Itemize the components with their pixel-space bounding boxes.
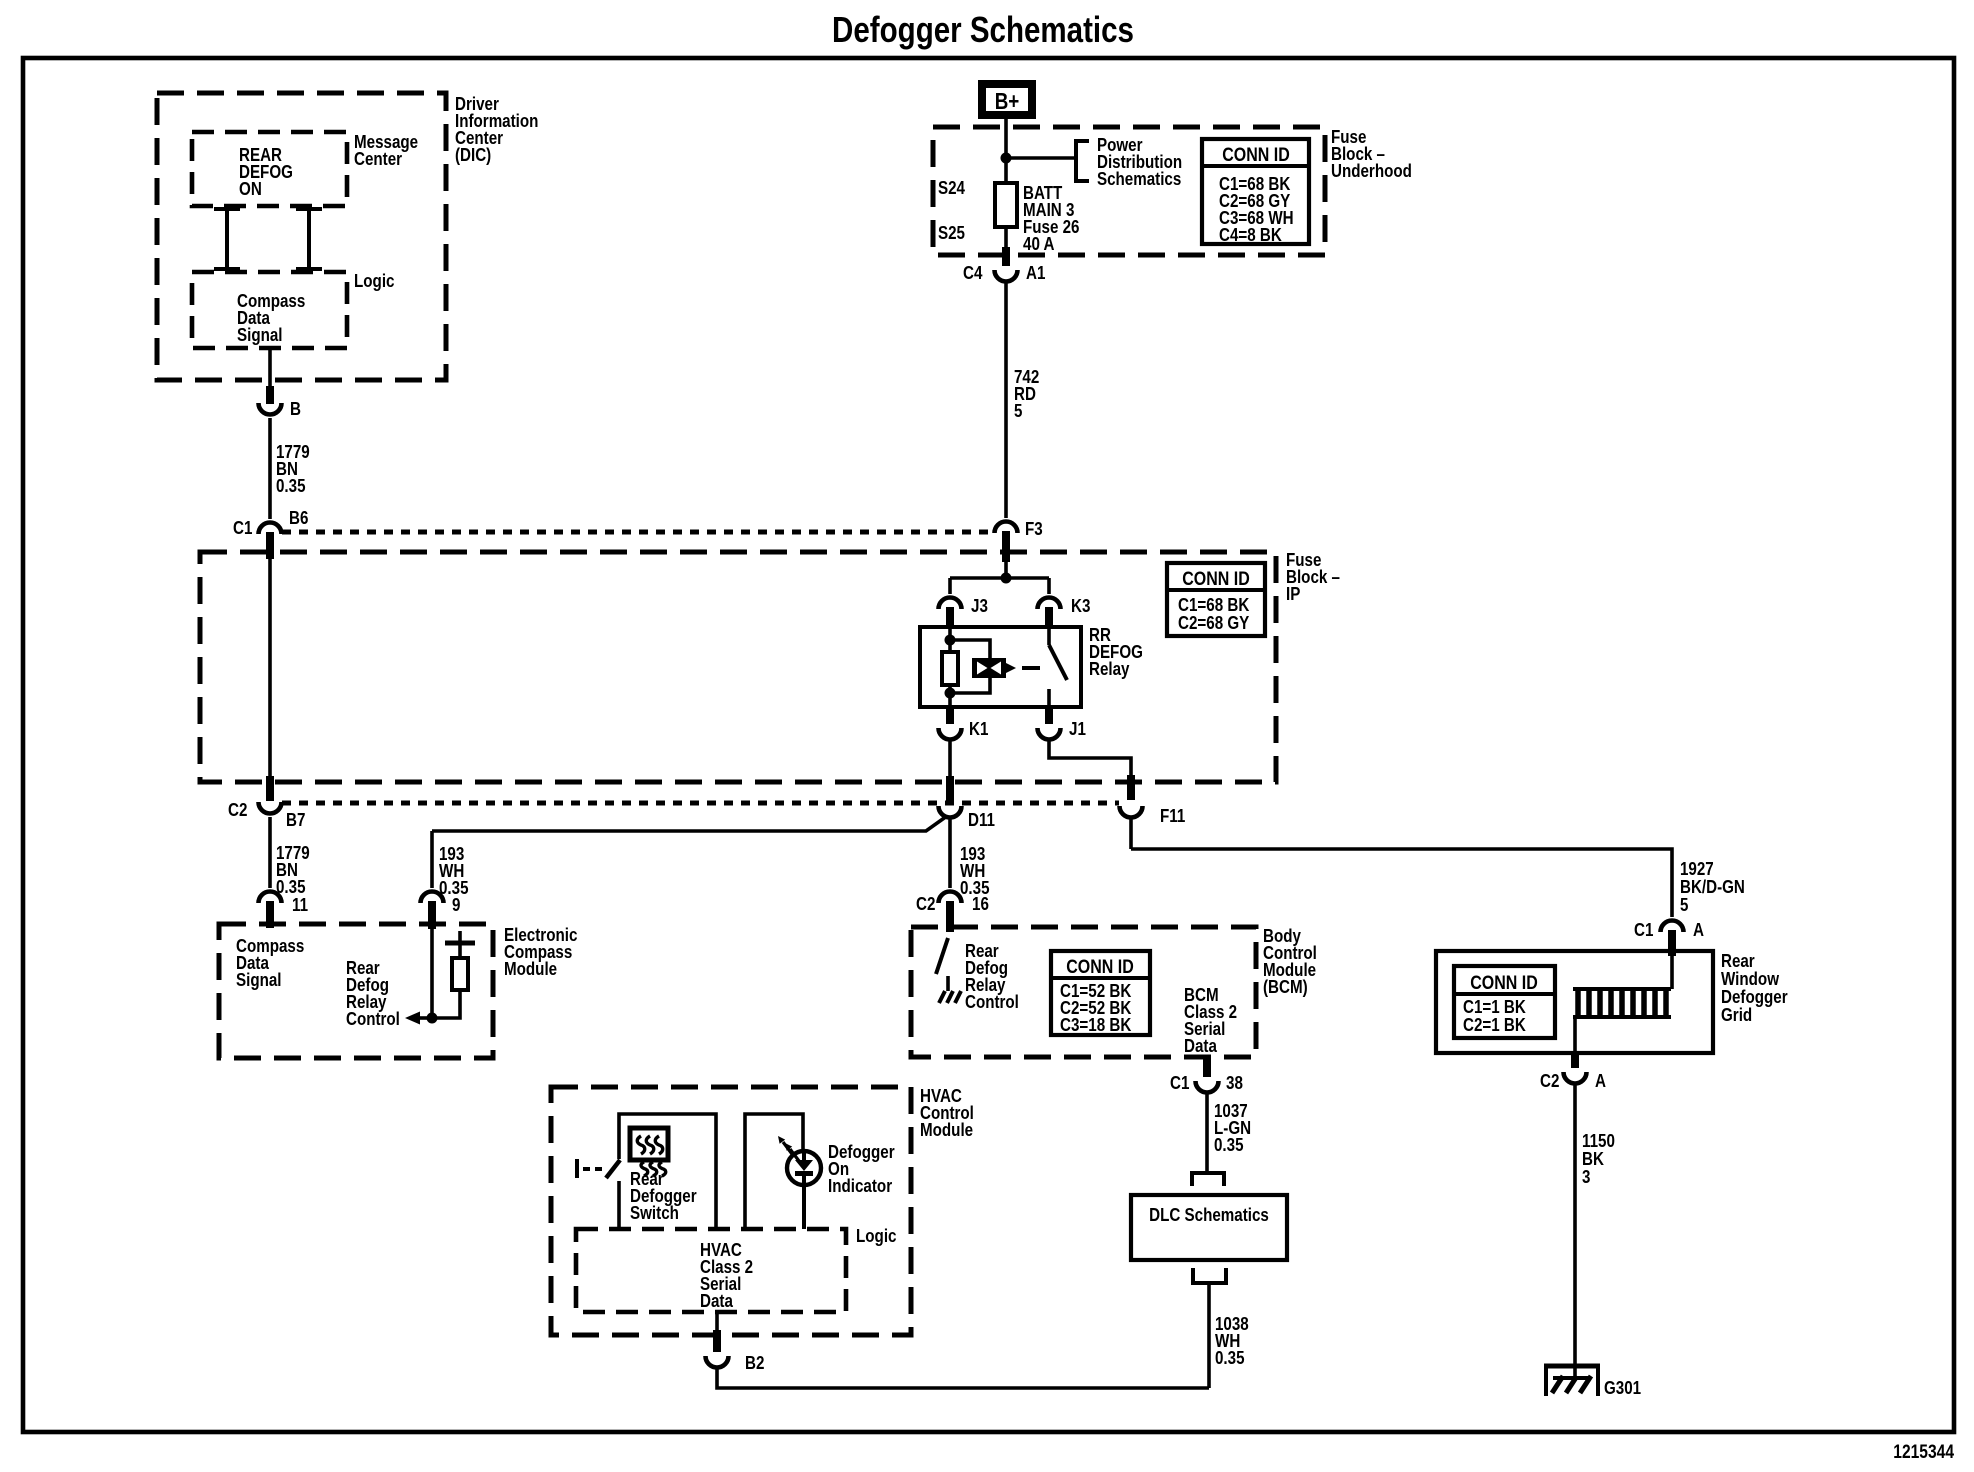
svg-text:CONN ID: CONN ID (1222, 144, 1290, 166)
svg-text:0.35: 0.35 (1215, 1347, 1245, 1368)
svg-text:Signal: Signal (237, 324, 283, 345)
svg-text:3: 3 (1582, 1166, 1590, 1187)
svg-text:Data: Data (700, 1290, 733, 1311)
svg-text:(BCM): (BCM) (1263, 976, 1308, 997)
svg-text:C1: C1 (233, 517, 252, 538)
svg-text:Module: Module (920, 1119, 973, 1140)
svg-text:C4=8 BK: C4=8 BK (1219, 224, 1282, 245)
svg-text:Center: Center (354, 148, 402, 169)
svg-text:Underhood: Underhood (1331, 160, 1412, 181)
svg-text:ON: ON (239, 178, 262, 199)
svg-text:Module: Module (504, 958, 557, 979)
svg-text:Data: Data (1184, 1035, 1217, 1056)
svg-text:Schematics: Schematics (1097, 168, 1181, 189)
svg-text:9: 9 (452, 894, 460, 915)
svg-text:B7: B7 (286, 809, 305, 830)
svg-text:Grid: Grid (1721, 1004, 1752, 1025)
svg-text:D11: D11 (968, 809, 995, 830)
svg-text:Defogger Schematics: Defogger Schematics (832, 9, 1134, 50)
svg-text:Switch: Switch (630, 1202, 679, 1223)
svg-text:16: 16 (972, 893, 989, 914)
svg-text:J1: J1 (1069, 718, 1086, 739)
svg-text:C2: C2 (916, 893, 935, 914)
svg-text:F3: F3 (1025, 518, 1043, 539)
svg-text:CONN ID: CONN ID (1470, 972, 1538, 994)
svg-text:C1: C1 (1170, 1072, 1189, 1093)
svg-text:0.35: 0.35 (276, 475, 306, 496)
svg-text:Relay: Relay (1089, 658, 1130, 679)
svg-text:C2: C2 (228, 799, 247, 820)
svg-text:C2=1 BK: C2=1 BK (1463, 1014, 1526, 1035)
svg-text:0.35: 0.35 (1214, 1134, 1244, 1155)
svg-text:CONN ID: CONN ID (1182, 568, 1250, 590)
svg-text:Control: Control (965, 991, 1019, 1012)
svg-text:Signal: Signal (236, 969, 282, 990)
svg-text:A1: A1 (1026, 262, 1045, 283)
svg-text:G301: G301 (1604, 1377, 1641, 1398)
svg-text:40 A: 40 A (1023, 233, 1055, 254)
svg-text:11: 11 (292, 894, 308, 915)
svg-text:K1: K1 (969, 718, 988, 739)
svg-text:S25: S25 (938, 222, 965, 243)
svg-text:5: 5 (1680, 894, 1688, 915)
svg-text:(DIC): (DIC) (455, 144, 491, 165)
svg-text:B6: B6 (289, 507, 308, 528)
svg-text:B2: B2 (745, 1352, 764, 1373)
svg-text:C2: C2 (1540, 1070, 1559, 1091)
svg-text:Logic: Logic (354, 270, 395, 291)
svg-text:A: A (1595, 1070, 1606, 1091)
svg-text:S24: S24 (938, 177, 966, 198)
svg-text:J3: J3 (971, 595, 988, 616)
svg-text:Control: Control (346, 1008, 400, 1029)
svg-text:1215344: 1215344 (1893, 1442, 1954, 1463)
svg-text:C3=18 BK: C3=18 BK (1060, 1014, 1132, 1035)
svg-text:A: A (1693, 919, 1704, 940)
svg-text:DLC Schematics: DLC Schematics (1149, 1204, 1269, 1225)
svg-text:F11: F11 (1160, 805, 1185, 826)
svg-text:5: 5 (1014, 400, 1022, 421)
svg-text:B+: B+ (995, 88, 1020, 114)
svg-text:IP: IP (1286, 583, 1300, 604)
svg-text:38: 38 (1226, 1072, 1243, 1093)
svg-text:0.35: 0.35 (276, 876, 306, 897)
svg-text:Logic: Logic (856, 1225, 897, 1246)
svg-text:BK/D-GN: BK/D-GN (1680, 876, 1745, 897)
svg-text:C2=68 GY: C2=68 GY (1178, 612, 1250, 633)
svg-text:B: B (290, 398, 301, 419)
svg-text:C1: C1 (1634, 919, 1653, 940)
svg-text:CONN ID: CONN ID (1066, 956, 1134, 978)
svg-text:Indicator: Indicator (828, 1175, 892, 1196)
svg-text:K3: K3 (1071, 595, 1090, 616)
svg-text:C4: C4 (963, 262, 983, 283)
